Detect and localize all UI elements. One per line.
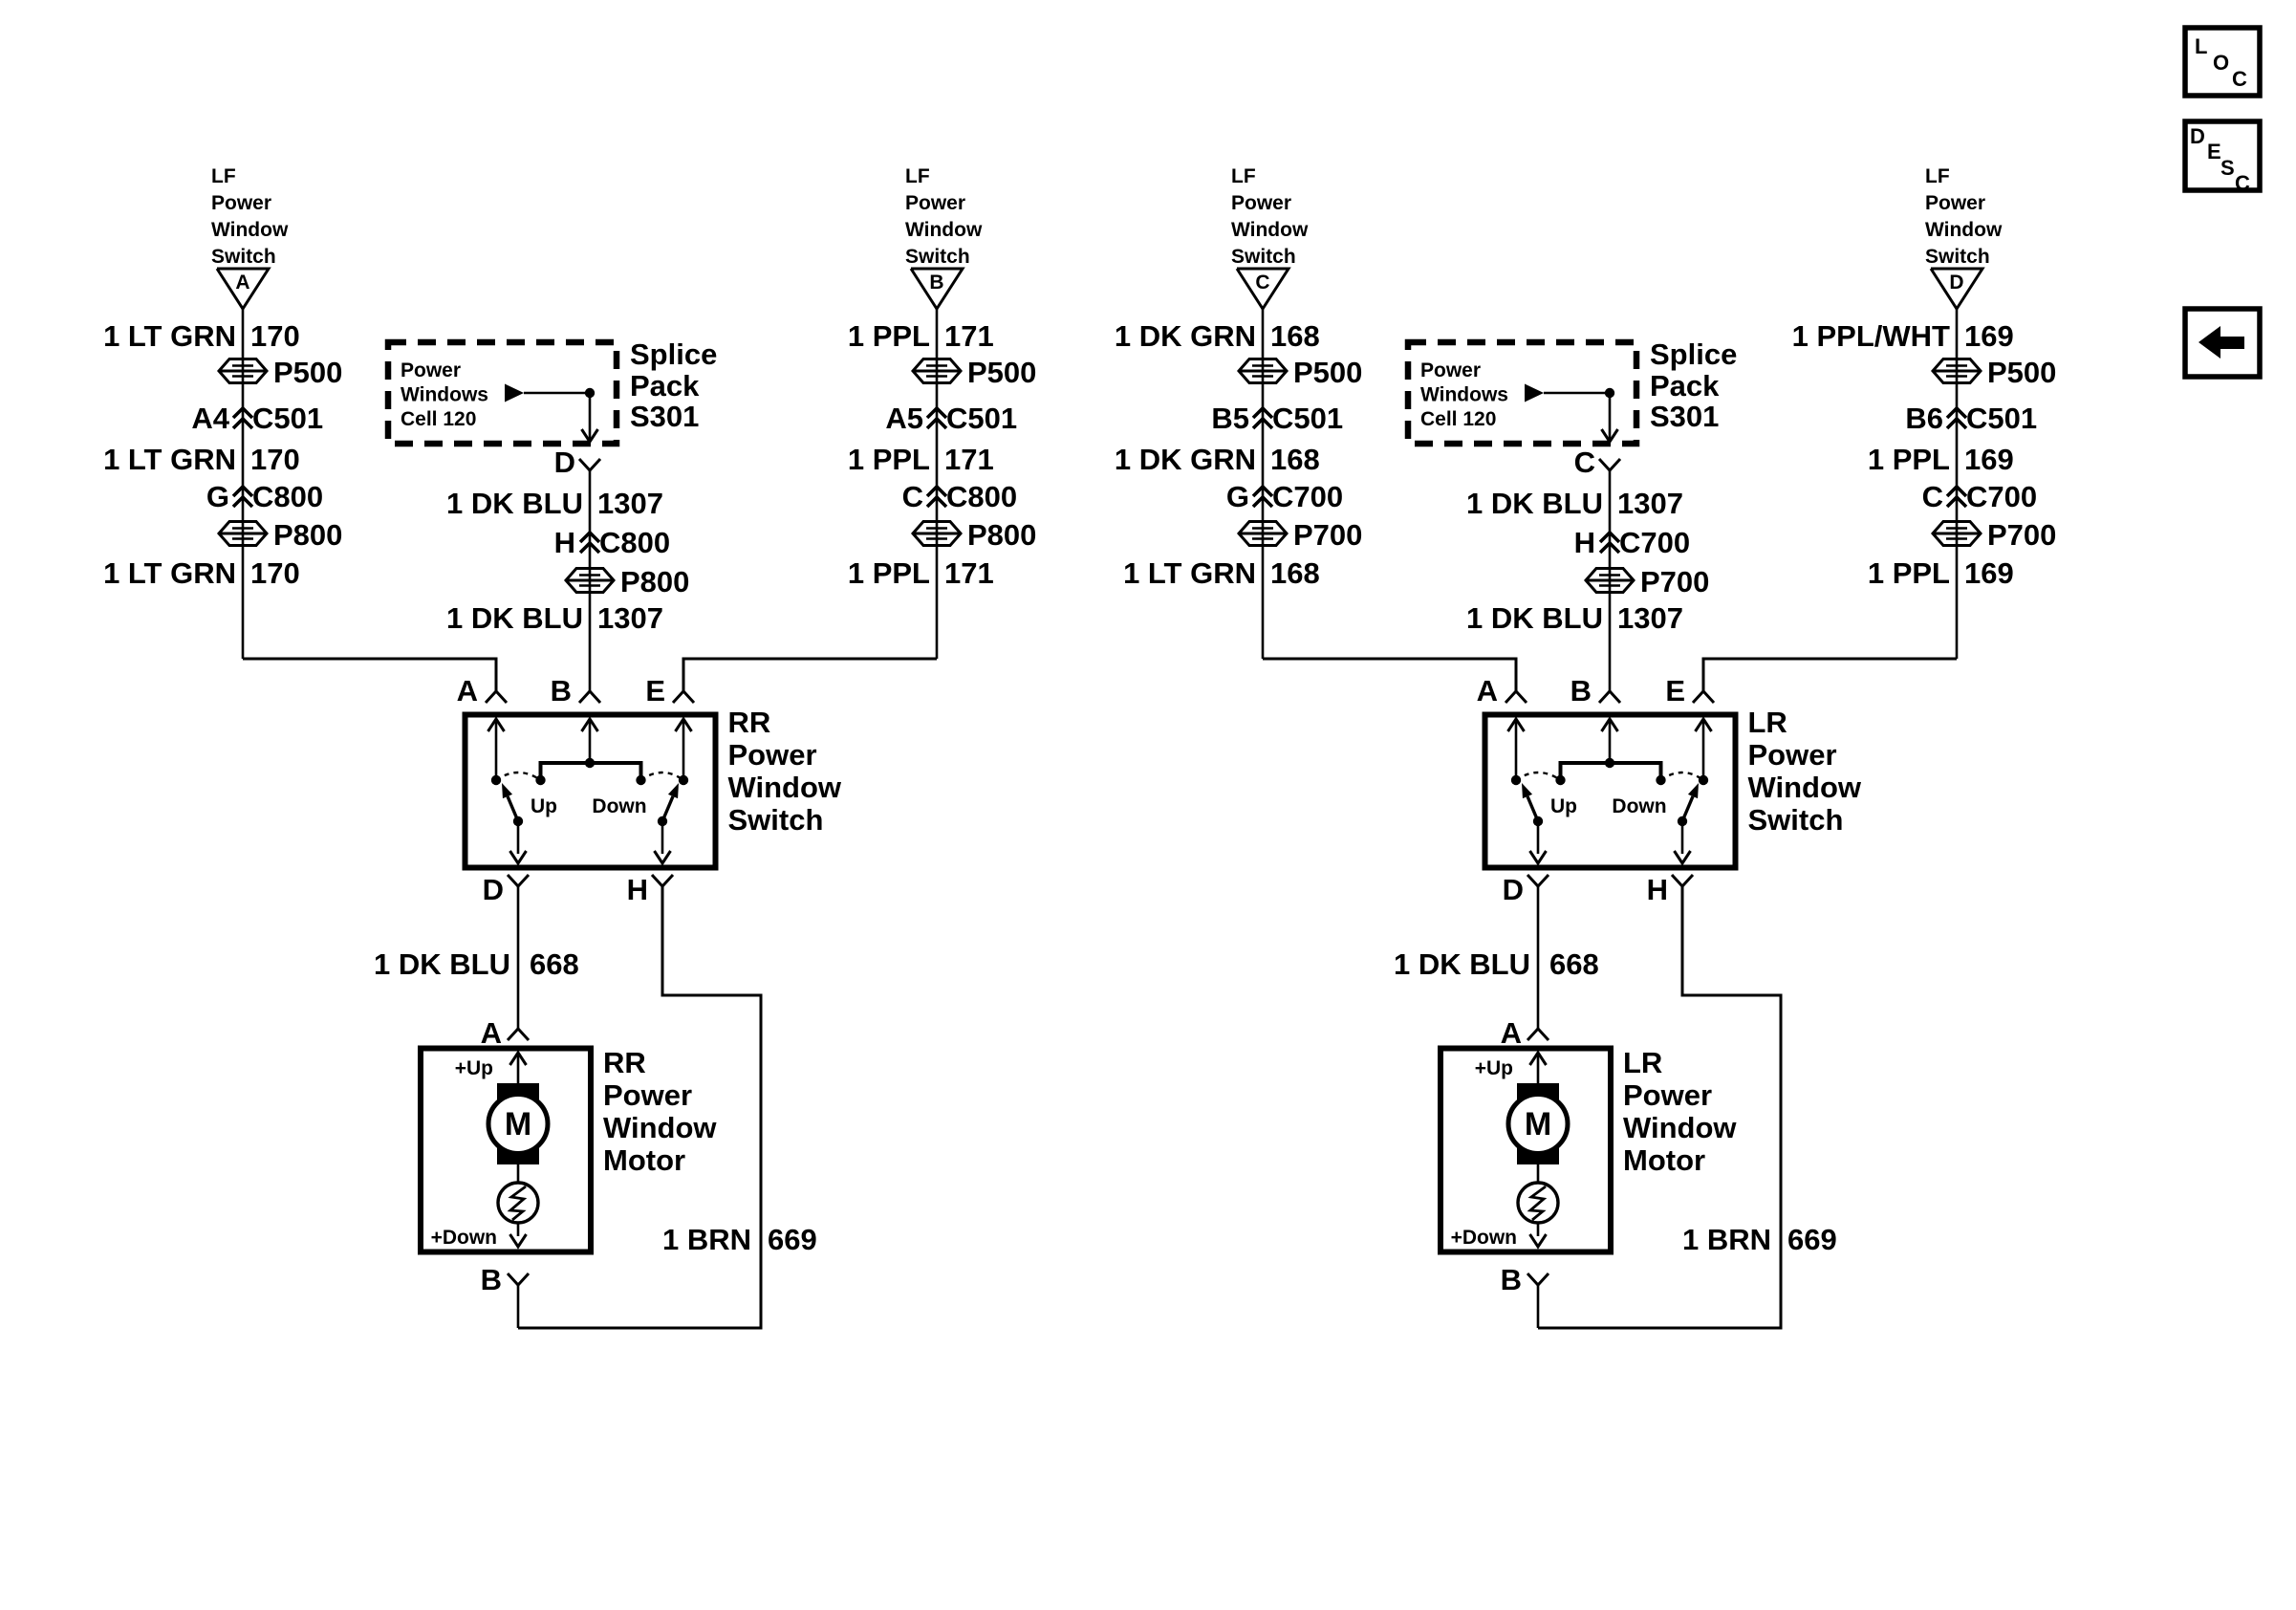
svg-text:Power: Power (1420, 359, 1481, 381)
switch internal feed B with T junction (589, 722, 592, 763)
connector triangle C (LF Power Window Switch) (1237, 269, 1289, 309)
svg-text:LR: LR (1623, 1046, 1662, 1079)
splice feed arrow from Power Windows cell (1525, 384, 1544, 402)
svg-text:B5: B5 (1211, 402, 1249, 435)
svg-text:1307: 1307 (1617, 487, 1683, 520)
RR Power Window Switch box (466, 715, 716, 868)
switch wiper Up (pole D) (513, 816, 523, 826)
svg-text:1 DK BLU: 1 DK BLU (446, 487, 583, 520)
svg-text:Down: Down (592, 795, 646, 817)
svg-text:A4: A4 (191, 402, 229, 435)
svg-text:Window: Window (1231, 219, 1309, 241)
svg-text:1 BRN: 1 BRN (662, 1223, 751, 1256)
svg-text:C: C (902, 480, 923, 513)
svg-text:P700: P700 (1293, 518, 1362, 552)
svg-text:LF: LF (905, 165, 930, 187)
svg-text:B6: B6 (1905, 402, 1943, 435)
wire 1 BRN 669 from switch H around to motor B (1538, 886, 1781, 1328)
svg-text:170: 170 (250, 556, 300, 590)
svg-text:Down: Down (1612, 795, 1666, 817)
svg-text:B: B (1570, 674, 1592, 707)
wire from column B to switch pin E (1703, 659, 1957, 691)
switch internal contact A arrow (1515, 722, 1518, 780)
svg-text:1 DK BLU: 1 DK BLU (1394, 947, 1530, 981)
svg-text:+Up: +Up (1475, 1057, 1513, 1079)
svg-text:P700: P700 (1640, 565, 1709, 598)
svg-text:A: A (235, 272, 249, 294)
connector P800 (566, 569, 614, 593)
back arrow button box (2185, 309, 2260, 377)
svg-text:M: M (505, 1106, 531, 1142)
connector P700 (1933, 522, 1981, 546)
svg-text:C501: C501 (252, 402, 323, 435)
svg-text:C: C (1922, 480, 1943, 513)
svg-text:171: 171 (944, 443, 994, 476)
svg-text:Up: Up (1550, 795, 1577, 817)
svg-text:A: A (481, 1016, 502, 1050)
svg-text:B: B (929, 272, 943, 294)
svg-text:Power: Power (1623, 1078, 1712, 1112)
svg-text:Window: Window (603, 1111, 717, 1144)
svg-text:668: 668 (530, 947, 579, 981)
svg-text:D: D (554, 446, 575, 479)
svg-text:Window: Window (905, 219, 983, 241)
svg-text:Power: Power (211, 192, 271, 214)
svg-text:M: M (1525, 1106, 1551, 1142)
svg-text:169: 169 (1964, 443, 2014, 476)
svg-text:Window: Window (1623, 1111, 1737, 1144)
svg-text:171: 171 (944, 319, 994, 353)
wire 1 DK BLU 1307 below splice (589, 470, 592, 691)
svg-text:1307: 1307 (597, 601, 663, 635)
svg-text:Switch: Switch (1748, 803, 1844, 837)
svg-text:S301: S301 (630, 400, 699, 433)
svg-text:Windows: Windows (1420, 384, 1508, 406)
motor feed arrow up (1537, 1055, 1540, 1086)
switch internal contact E arrow (1702, 722, 1705, 780)
svg-text:1 BRN: 1 BRN (1682, 1223, 1771, 1256)
svg-text:LF: LF (211, 165, 236, 187)
circuit breaker (1537, 1162, 1540, 1183)
svg-text:Window: Window (728, 771, 842, 804)
svg-text:H: H (554, 526, 575, 559)
svg-text:171: 171 (944, 556, 994, 590)
svg-text:O: O (2213, 51, 2229, 75)
svg-text:B: B (551, 674, 572, 707)
splice pack S301 dashed box (388, 342, 617, 444)
wire segment col A vertical (242, 309, 245, 659)
svg-text:Cell 120: Cell 120 (401, 408, 476, 430)
motor M symbol (1517, 1083, 1559, 1102)
svg-text:A5: A5 (885, 402, 923, 435)
svg-text:LR: LR (1748, 706, 1787, 739)
svg-text:+Down: +Down (1451, 1227, 1517, 1249)
connector triangle B (LF Power Window Switch) (911, 269, 963, 309)
wire 1 DK BLU 668 from switch D to motor A (1537, 886, 1540, 1029)
svg-text:C700: C700 (1966, 480, 2037, 513)
svg-text:1 PPL: 1 PPL (848, 556, 930, 590)
svg-text:C501: C501 (946, 402, 1017, 435)
svg-text:P800: P800 (273, 518, 342, 552)
wire from column B to switch pin E (683, 659, 937, 691)
svg-text:G: G (206, 480, 229, 513)
svg-text:1 LT GRN: 1 LT GRN (103, 556, 236, 590)
svg-text:P700: P700 (1987, 518, 2056, 552)
svg-text:1 LT GRN: 1 LT GRN (103, 443, 236, 476)
svg-text:P800: P800 (967, 518, 1036, 552)
svg-text:1 LT GRN: 1 LT GRN (103, 319, 236, 353)
wire 1 DK BLU 668 from switch D to motor A (517, 886, 520, 1029)
svg-text:H: H (1647, 873, 1668, 906)
svg-text:Power: Power (603, 1078, 692, 1112)
svg-text:P500: P500 (967, 356, 1036, 389)
switch internal contact A arrow (495, 722, 498, 780)
svg-text:LF: LF (1231, 165, 1256, 187)
svg-text:RR: RR (728, 706, 771, 739)
svg-text:1 DK BLU: 1 DK BLU (446, 601, 583, 635)
svg-text:C700: C700 (1619, 526, 1690, 559)
svg-text:S: S (2220, 156, 2235, 180)
svg-text:Window: Window (1925, 219, 2003, 241)
LR Power Window Motor box (1440, 1049, 1611, 1252)
wire from column A to switch pin A (1263, 659, 1516, 691)
svg-text:A: A (1501, 1016, 1522, 1050)
LOC button box (2185, 28, 2260, 96)
LR Power Window Switch box (1485, 715, 1736, 868)
svg-text:C501: C501 (1272, 402, 1343, 435)
svg-text:P500: P500 (1293, 356, 1362, 389)
svg-text:Windows: Windows (401, 384, 488, 406)
svg-text:170: 170 (250, 443, 300, 476)
connector P500 (1933, 359, 1981, 383)
svg-text:168: 168 (1270, 319, 1320, 353)
svg-text:B: B (481, 1263, 502, 1296)
svg-text:1 PPL: 1 PPL (1868, 443, 1950, 476)
svg-text:Switch: Switch (211, 246, 276, 268)
svg-text:P500: P500 (1987, 356, 2056, 389)
svg-text:H: H (627, 873, 648, 906)
svg-text:Motor: Motor (603, 1143, 685, 1177)
svg-text:1 LT GRN: 1 LT GRN (1123, 556, 1256, 590)
svg-text:Switch: Switch (1925, 246, 1990, 268)
svg-text:169: 169 (1964, 556, 2014, 590)
svg-text:170: 170 (250, 319, 300, 353)
switch wiper Down (pole H) (658, 816, 667, 826)
svg-text:H: H (1574, 526, 1595, 559)
connector triangle A (LF Power Window Switch) (217, 269, 269, 309)
circuit breaker (517, 1162, 520, 1183)
svg-text:Pack: Pack (1650, 369, 1720, 402)
connector P500 (1239, 359, 1287, 383)
switch wiper Up (pole D) (1533, 816, 1543, 826)
wire segment col D vertical (1956, 309, 1959, 659)
connector P700 (1586, 569, 1634, 593)
svg-text:D: D (2190, 124, 2205, 148)
svg-text:1 PPL: 1 PPL (1868, 556, 1950, 590)
wire 1 BRN 669 from switch H around to motor B (518, 886, 761, 1328)
svg-text:Power: Power (728, 738, 817, 772)
svg-text:Switch: Switch (905, 246, 970, 268)
svg-text:D: D (1949, 272, 1963, 294)
svg-text:RR: RR (603, 1046, 646, 1079)
splice feed arrow from Power Windows cell (505, 384, 524, 402)
splice pack S301 dashed box (1408, 342, 1636, 444)
svg-text:A: A (1477, 674, 1498, 707)
svg-text:C501: C501 (1966, 402, 2037, 435)
svg-text:C800: C800 (946, 480, 1017, 513)
svg-text:1 PPL: 1 PPL (848, 319, 930, 353)
svg-text:C: C (1574, 446, 1595, 479)
svg-text:1 DK BLU: 1 DK BLU (1466, 487, 1603, 520)
switch internal feed B with T junction (1609, 722, 1612, 763)
svg-text:Power: Power (1748, 738, 1837, 772)
svg-text:C: C (2232, 67, 2247, 91)
svg-text:Window: Window (1748, 771, 1862, 804)
svg-text:Window: Window (211, 219, 289, 241)
connector P500 (913, 359, 961, 383)
dashed wiper travel arcs (1516, 772, 1561, 780)
wire segment col C vertical (1262, 309, 1265, 659)
svg-text:Power: Power (905, 192, 965, 214)
svg-text:S301: S301 (1650, 400, 1719, 433)
svg-text:P500: P500 (273, 356, 342, 389)
svg-text:G: G (1226, 480, 1249, 513)
svg-text:1 DK GRN: 1 DK GRN (1115, 443, 1256, 476)
svg-text:669: 669 (1787, 1223, 1837, 1256)
wire from column A to switch pin A (243, 659, 496, 691)
splice junction S301 (585, 388, 595, 398)
svg-text:Cell 120: Cell 120 (1420, 408, 1496, 430)
motor feed arrow down (517, 1223, 520, 1236)
svg-text:668: 668 (1549, 947, 1599, 981)
svg-text:1 PPL: 1 PPL (848, 443, 930, 476)
switch wiper Down (pole H) (1678, 816, 1687, 826)
motor feed arrow up (517, 1055, 520, 1086)
svg-text:C700: C700 (1272, 480, 1343, 513)
svg-text:Switch: Switch (1231, 246, 1296, 268)
svg-text:1 PPL/WHT: 1 PPL/WHT (1792, 319, 1950, 353)
svg-text:LF: LF (1925, 165, 1950, 187)
dashed wiper travel arcs (496, 772, 541, 780)
svg-text:C: C (1255, 272, 1269, 294)
splice junction S301 (1605, 388, 1614, 398)
svg-text:Power: Power (401, 359, 461, 381)
svg-text:E: E (645, 674, 665, 707)
svg-text:1 DK BLU: 1 DK BLU (1466, 601, 1603, 635)
svg-text:C: C (2235, 171, 2250, 195)
svg-text:168: 168 (1270, 443, 1320, 476)
connector triangle D (LF Power Window Switch) (1931, 269, 1982, 309)
svg-text:1 DK BLU: 1 DK BLU (374, 947, 510, 981)
svg-text:E: E (2207, 140, 2221, 163)
svg-text:Motor: Motor (1623, 1143, 1705, 1177)
svg-text:+Up: +Up (455, 1057, 493, 1079)
svg-text:L: L (2195, 34, 2207, 58)
svg-text:Power: Power (1231, 192, 1291, 214)
svg-text:1307: 1307 (597, 487, 663, 520)
wire 1 DK BLU 1307 below splice (1609, 470, 1612, 691)
svg-text:C800: C800 (252, 480, 323, 513)
svg-text:Up: Up (531, 795, 557, 817)
svg-text:1307: 1307 (1617, 601, 1683, 635)
connector P800 (913, 522, 961, 546)
DESC button box (2185, 121, 2260, 190)
RR Power Window Motor box (421, 1049, 591, 1252)
connector P700 (1239, 522, 1287, 546)
svg-text:Power: Power (1925, 192, 1985, 214)
svg-text:669: 669 (768, 1223, 817, 1256)
svg-text:D: D (483, 873, 504, 906)
svg-text:168: 168 (1270, 556, 1320, 590)
svg-text:Splice: Splice (1650, 337, 1737, 371)
svg-text:Switch: Switch (728, 803, 824, 837)
svg-text:D: D (1503, 873, 1524, 906)
connector P800 (219, 522, 267, 546)
svg-text:+Down: +Down (431, 1227, 497, 1249)
switch internal contact E arrow (682, 722, 685, 780)
wire segment col B vertical (936, 309, 939, 659)
svg-text:A: A (457, 674, 478, 707)
motor M symbol (497, 1083, 539, 1102)
svg-text:Pack: Pack (630, 369, 700, 402)
svg-text:B: B (1501, 1263, 1522, 1296)
connector P500 (219, 359, 267, 383)
svg-text:Splice: Splice (630, 337, 717, 371)
svg-text:1 DK GRN: 1 DK GRN (1115, 319, 1256, 353)
svg-text:C800: C800 (599, 526, 670, 559)
svg-text:P800: P800 (620, 565, 689, 598)
svg-text:169: 169 (1964, 319, 2014, 353)
motor feed arrow down (1537, 1223, 1540, 1236)
svg-text:E: E (1665, 674, 1685, 707)
